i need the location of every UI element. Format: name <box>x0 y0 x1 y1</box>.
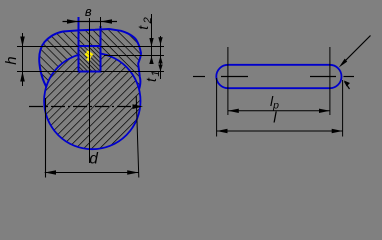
t2 dimension vertical line with outside arrows <box>149 14 153 64</box>
h dimension vertical line with outside arrows <box>20 33 25 86</box>
t1 extension line bottom (y=71.5 right part) <box>101 71 165 73</box>
d dimension line with inside arrows <box>45 170 139 175</box>
d extension line right <box>136 96 139 178</box>
leader arrow pointing to key end radius <box>339 36 371 68</box>
t1 dimension vertical line with arrows <box>158 36 162 79</box>
hub (outer blob, hatched \ ) <box>39 29 141 92</box>
horizontal centerline (dash-dot) with right arrow <box>29 104 143 109</box>
keyway wall right (blue, above key) <box>100 26 102 46</box>
l extension line left <box>216 78 218 137</box>
shaft surface extension line (y=56) <box>104 55 164 57</box>
dimension b (в) line with outside arrows <box>63 19 118 24</box>
lp extension line left (through arc center) <box>227 47 229 115</box>
l extension line right <box>342 80 344 137</box>
d extension line left <box>45 98 47 178</box>
yellow key marker <box>85 51 92 61</box>
svg-text:d: d <box>89 151 99 168</box>
lp extension line right <box>329 47 331 115</box>
extension line right wall top (black) <box>100 17 102 28</box>
key outline (stadium) <box>216 65 341 88</box>
keyway wall left (blue, above key) <box>78 17 80 46</box>
svg-text:в: в <box>85 4 92 19</box>
svg-text:h: h <box>3 56 20 64</box>
key cross-section in keyway <box>79 46 101 72</box>
h extension line top (y=46.5) <box>17 46 79 48</box>
lp dimension line with inside arrows <box>228 109 330 113</box>
h extension line bottom (y=71.5) <box>17 71 79 73</box>
shaft circle (hatched / ) <box>44 53 140 149</box>
center dashes of key plan <box>193 76 354 78</box>
t2 extension line (y=46.5 right part) <box>101 46 165 48</box>
l dimension line with inside arrows <box>217 129 343 133</box>
small arrow mark near key right end <box>344 81 350 90</box>
vertical centerline <box>89 18 91 163</box>
